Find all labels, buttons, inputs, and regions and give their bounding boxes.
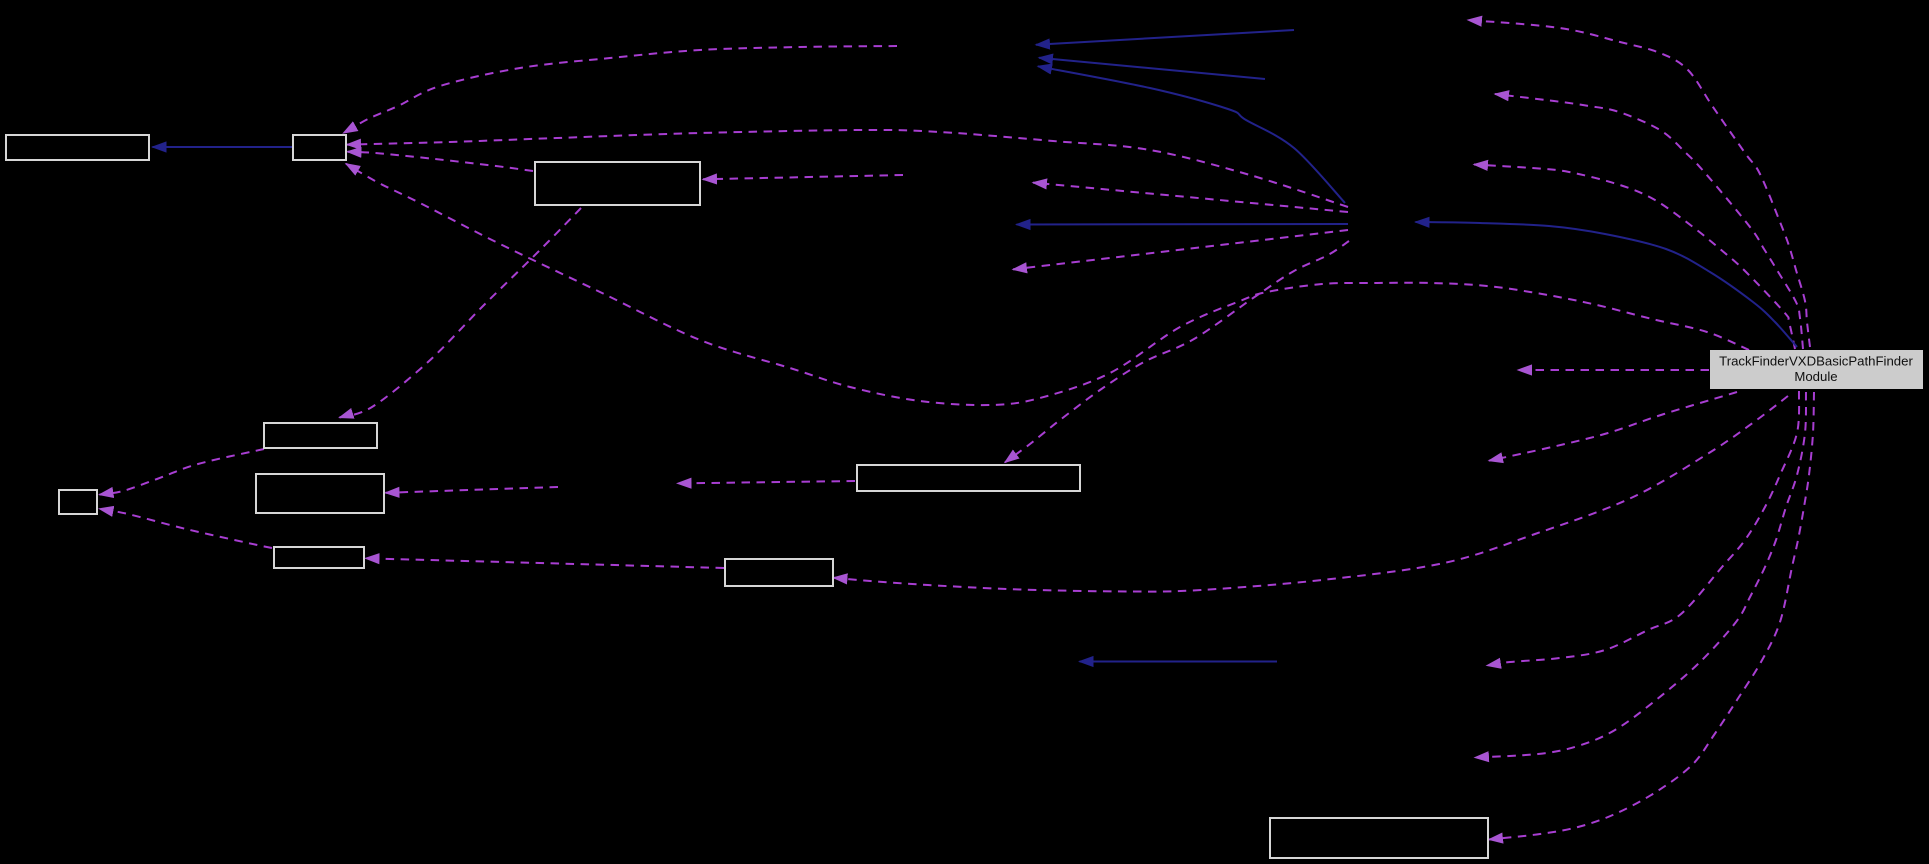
- svg-text:TrackFinderVXDBasicPathFinder: TrackFinderVXDBasicPathFinder: [1719, 354, 1913, 369]
- svg-text:Module: Module: [1794, 369, 1837, 384]
